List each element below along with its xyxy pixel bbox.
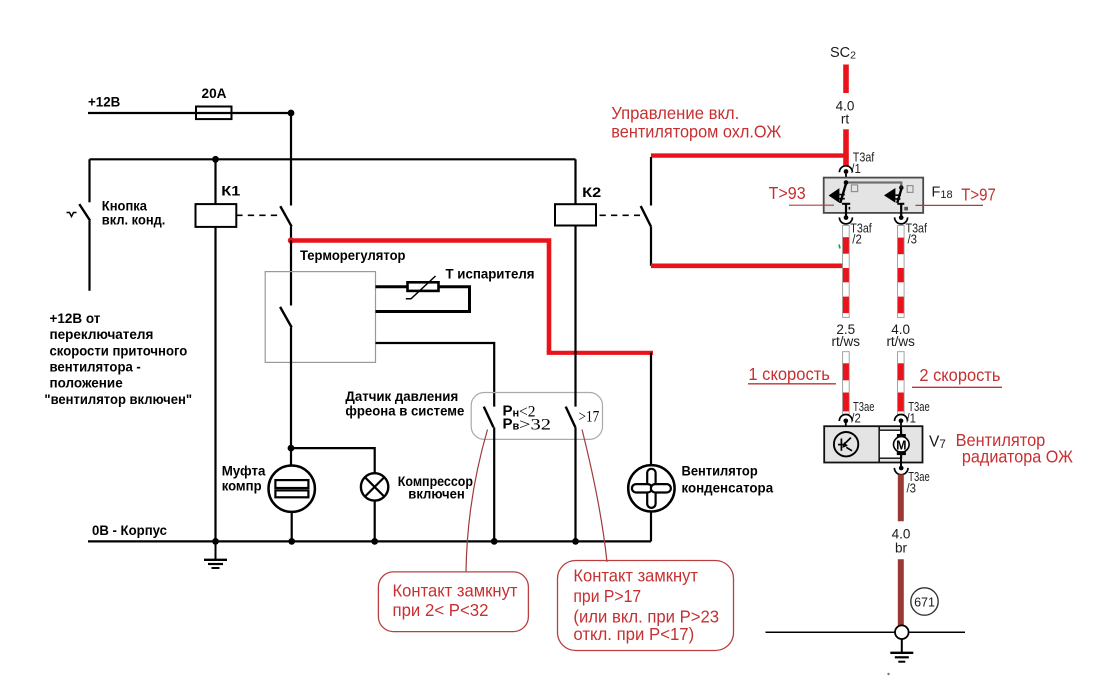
label 1 скорость red underlined: [748, 364, 836, 384]
wire condenser fan to ground rail: [650, 512, 652, 542]
wire clutch top: [290, 448, 292, 465]
svg-text:Контакт замкнут: Контакт замкнут: [573, 565, 698, 585]
wire fuse to K1 contact: [290, 113, 292, 206]
svg-text:/3: /3: [908, 232, 918, 247]
fan motor V7 box: [824, 426, 922, 462]
ground line bottom right: [766, 631, 966, 633]
svg-text:/1: /1: [851, 161, 861, 176]
pin square F18 left: [851, 185, 857, 192]
svg-text:радиатора ОЖ: радиатора ОЖ: [962, 447, 1073, 467]
svg-text:при Р>17: при Р>17: [573, 586, 641, 606]
green speck: [839, 245, 840, 249]
wire ground rail 0V: [88, 540, 651, 542]
label Pн&lt;2 Pв&gt;32: [503, 403, 552, 434]
wire red K2 contact to F18 wire: [651, 263, 843, 268]
node red junction: [288, 237, 294, 243]
dashed link K2 coil to contact: [600, 214, 641, 216]
svg-text:вкл. конд.: вкл. конд.: [102, 212, 166, 228]
callout pointer 1: [466, 430, 488, 572]
node clutch branch junction: [288, 445, 295, 452]
motor M symbol: [894, 426, 910, 462]
svg-text:К1: К1: [221, 183, 240, 199]
internal bus F18: [846, 183, 901, 187]
ground symbol right: [890, 639, 913, 662]
LEFT-SCHEMATIC: [44, 85, 848, 568]
dashed link K1 coil to contact: [236, 214, 280, 216]
clutch symbol Муфта компр: [269, 466, 315, 512]
svg-text:671: 671: [914, 595, 935, 609]
ground point circle 671: [911, 588, 938, 615]
node K1 coil junction: [212, 156, 219, 163]
wire striped rt/ws left lower: [843, 352, 850, 415]
svg-text:SC2: SC2: [830, 45, 856, 62]
wire striped rt/ws right lower: [898, 352, 905, 415]
svg-text:+12В: +12В: [88, 94, 120, 110]
thermo switch F18 box: [824, 178, 924, 213]
svg-text:rt/ws: rt/ws: [832, 334, 861, 349]
callout bubble 2: [558, 561, 734, 651]
connector T3af/2: [839, 215, 852, 224]
svg-text:/1: /1: [907, 410, 917, 425]
svg-text:>17: >17: [579, 408, 600, 425]
lamp Компрессор включен: [361, 473, 388, 500]
svg-text:T>97: T>97: [961, 184, 996, 204]
wire SC2 red segment A: [843, 65, 849, 94]
wire lamp to ground rail: [374, 501, 376, 542]
label 2 скорость red underlined: [912, 365, 1002, 387]
leader line T>93: [789, 204, 834, 206]
svg-text:скорости приточного: скорости приточного: [50, 343, 188, 358]
pressure switch box: [471, 393, 602, 440]
wire clutch to ground rail: [291, 512, 293, 542]
svg-text:"вентилятор включен": "вентилятор включен": [44, 392, 192, 407]
contact pressure >17: [566, 407, 576, 428]
svg-text:20А: 20А: [202, 85, 227, 101]
svg-text:Терморегулятор: Терморегулятор: [300, 247, 406, 263]
contact F18 T>93: [829, 184, 851, 217]
svg-text:Контакт замкнут: Контакт замкнут: [393, 580, 518, 600]
contact K1: [280, 206, 291, 226]
svg-text:Управление вкл.: Управление вкл.: [611, 103, 739, 123]
pin mark F18 right filled: [904, 207, 908, 211]
contact pressure Pn/Pv: [484, 407, 494, 428]
svg-text:Т испарителя: Т испарителя: [446, 266, 535, 282]
wire clutch branch to lamp: [291, 448, 375, 473]
connector T3ae/1: [895, 415, 908, 427]
svg-text:вентилятором охл.ОЖ: вентилятором охл.ОЖ: [611, 121, 781, 141]
wire K1 contact to red node: [290, 226, 292, 240]
wire thermoreg switch lower: [290, 328, 292, 449]
svg-text:T>93: T>93: [769, 183, 806, 203]
wire pressure contact 1 to ground rail: [493, 427, 495, 541]
svg-text:фреона в системе: фреона в системе: [345, 403, 464, 419]
svg-text:/2: /2: [851, 410, 861, 425]
V7 divider: [878, 426, 880, 462]
svg-text:F18: F18: [932, 184, 953, 201]
svg-text:/3: /3: [907, 481, 917, 496]
svg-text:положение: положение: [50, 376, 124, 391]
svg-text:Муфта: Муфта: [222, 463, 266, 479]
svg-text:M: M: [896, 438, 906, 452]
svg-text:1 скорость: 1 скорость: [748, 364, 830, 384]
callout bubble 1: [378, 572, 528, 632]
node ground rail junctions: [212, 538, 579, 545]
thermal sensor K circle: [834, 432, 858, 456]
svg-text:Вентилятор: Вентилятор: [682, 463, 758, 479]
V7 motor frame: [879, 430, 901, 458]
svg-text:+12В от: +12В от: [50, 311, 101, 326]
svg-text:V7: V7: [929, 433, 946, 451]
wire condenser fan branch: [650, 353, 652, 465]
contact K2: [641, 157, 651, 266]
svg-text:компр: компр: [222, 478, 262, 494]
wire SC2 red segment B: [843, 129, 849, 166]
contact F18 T>97: [884, 188, 904, 217]
svg-text:4.0: 4.0: [892, 527, 911, 542]
relay coil K2: [555, 204, 596, 225]
wire brown segment A: [898, 474, 904, 521]
wire thermoreg to pressure switch: [376, 343, 495, 407]
svg-text:К2: К2: [582, 184, 601, 200]
speck dot: [887, 673, 889, 675]
connector T3af/1: [839, 166, 852, 178]
svg-text:br: br: [895, 541, 908, 556]
svg-text:/2: /2: [852, 232, 862, 247]
thermistor T испарителя: [408, 282, 439, 291]
RIGHT-SCHEMATIC: [748, 45, 1002, 675]
wire thermoreg switch upper: [290, 241, 292, 306]
svg-text:конденсатора: конденсатора: [682, 479, 774, 495]
connector T3ae/3: [894, 463, 908, 475]
ground symbol left: [204, 541, 227, 568]
wire +12V bus rail: [90, 158, 576, 160]
svg-text:0В - Корпус: 0В - Корпус: [92, 522, 167, 538]
wire K2 coil to pressure contact 2: [574, 226, 576, 407]
node fuse output junction: [288, 110, 295, 117]
svg-text:rt: rt: [841, 111, 849, 126]
contact thermoregulator: [280, 307, 292, 328]
thermoregulator box: [265, 272, 375, 363]
svg-text:откл. при Р<17): откл. при Р<17): [573, 624, 694, 644]
pin square F18 right: [907, 186, 913, 193]
callout pointer 2: [582, 430, 607, 562]
wire rail to K1 coil: [214, 159, 216, 204]
wire pressure contact 2 to ground rail: [574, 427, 576, 541]
wire striped rt/ws right upper: [898, 226, 905, 318]
wire striped rt/ws left upper: [843, 226, 850, 318]
condenser fan symbol: [628, 465, 674, 511]
wire K2 coil drop: [574, 159, 576, 204]
ground node circle: [895, 625, 909, 639]
svg-text:при 2< Р<32: при 2< Р<32: [393, 600, 489, 620]
wire red to thermoregulator: [293, 241, 549, 353]
wire red feed to K2 contact: [651, 153, 849, 157]
svg-text:rt/ws: rt/ws: [886, 334, 915, 349]
connector T3ae/2: [839, 415, 852, 427]
connector T3af/3: [895, 215, 908, 224]
wire thermistor loop: [376, 287, 470, 312]
relay coil K1: [196, 204, 237, 227]
leader line T>97: [916, 204, 984, 206]
svg-text:2 скорость: 2 скорость: [919, 365, 1000, 385]
svg-text:>32: >32: [519, 417, 551, 434]
wire red to condenser fan branch: [547, 351, 653, 355]
wire +12V feed: [88, 112, 291, 114]
label +12В от переключателя: [44, 311, 192, 407]
svg-text:включен: включен: [408, 486, 465, 502]
svg-text:вентилятора -: вентилятора -: [50, 360, 141, 375]
fuse 20A: [196, 107, 232, 120]
wire brown segment B: [898, 559, 904, 625]
svg-text:переключателя: переключателя: [50, 327, 154, 342]
wire K1 coil to ground rail: [214, 227, 216, 542]
switch button (Кнопка вкл. конд.): [67, 159, 91, 290]
